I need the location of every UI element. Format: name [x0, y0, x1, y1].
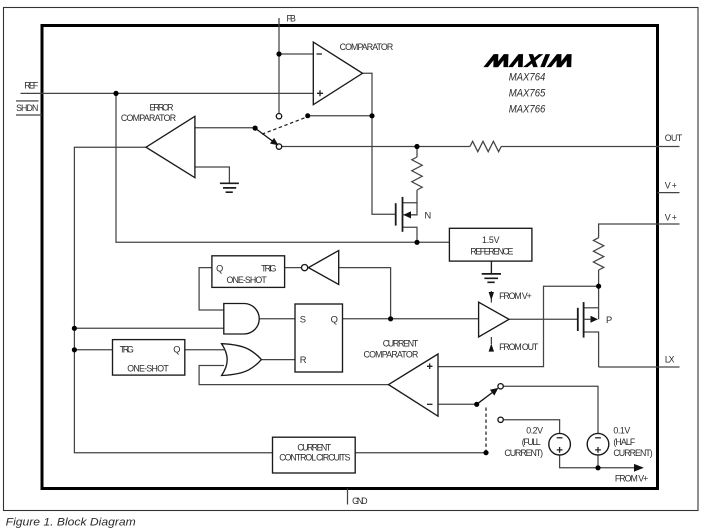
svg-text:LX: LX	[665, 355, 675, 365]
svg-text:TRIG: TRIG	[261, 264, 277, 274]
svg-text:CONTROL CIRCUITS: CONTROL CIRCUITS	[279, 453, 350, 463]
svg-text:CURRENT: CURRENT	[383, 339, 419, 349]
svg-text:V+: V+	[665, 213, 677, 223]
svg-text:Q: Q	[173, 344, 180, 354]
svg-text:Q: Q	[216, 264, 223, 274]
svg-text:COMPARATOR: COMPARATOR	[121, 113, 176, 123]
svg-text:FROM V+: FROM V+	[499, 291, 532, 301]
svg-text:V+: V+	[665, 181, 677, 191]
svg-text:(HALF: (HALF	[613, 437, 635, 447]
svg-text:CURRENT: CURRENT	[297, 443, 331, 453]
svg-text:ONE-SHOT: ONE-SHOT	[127, 364, 169, 374]
svg-text:OUT: OUT	[665, 133, 683, 143]
svg-text:ONE-SHOT: ONE-SHOT	[227, 275, 268, 285]
svg-text:0.1V: 0.1V	[613, 425, 630, 435]
svg-text:0.2V: 0.2V	[526, 425, 543, 435]
svg-text:COMPARATOR: COMPARATOR	[340, 42, 394, 52]
svg-text:MAX766: MAX766	[509, 103, 546, 115]
svg-text:SHDN: SHDN	[16, 103, 38, 113]
svg-text:TRIG: TRIG	[120, 344, 134, 354]
svg-text:COMPARATOR: COMPARATOR	[364, 350, 419, 360]
svg-text:(FULL: (FULL	[522, 437, 541, 447]
svg-text:R: R	[300, 354, 307, 365]
svg-text:FB: FB	[287, 14, 297, 24]
svg-text:N: N	[425, 211, 432, 221]
svg-text:REFERENCE: REFERENCE	[470, 247, 513, 257]
svg-text:Q: Q	[331, 313, 338, 324]
svg-text:Figure 1. Block Diagram: Figure 1. Block Diagram	[6, 516, 136, 528]
svg-text:1.5V: 1.5V	[482, 235, 500, 245]
svg-text:CURRENT): CURRENT)	[504, 448, 543, 458]
svg-text:CURRENT): CURRENT)	[613, 448, 652, 458]
svg-text:FROM OUT: FROM OUT	[499, 342, 539, 352]
svg-text:FROM V+: FROM V+	[615, 473, 648, 483]
svg-text:MAX765: MAX765	[509, 87, 546, 99]
svg-text:P: P	[606, 315, 612, 325]
svg-text:GND: GND	[352, 496, 368, 506]
svg-text:MAX764: MAX764	[509, 72, 546, 84]
svg-text:REF: REF	[24, 80, 39, 90]
svg-text:S: S	[300, 313, 306, 324]
svg-text:ERROR: ERROR	[150, 102, 174, 112]
